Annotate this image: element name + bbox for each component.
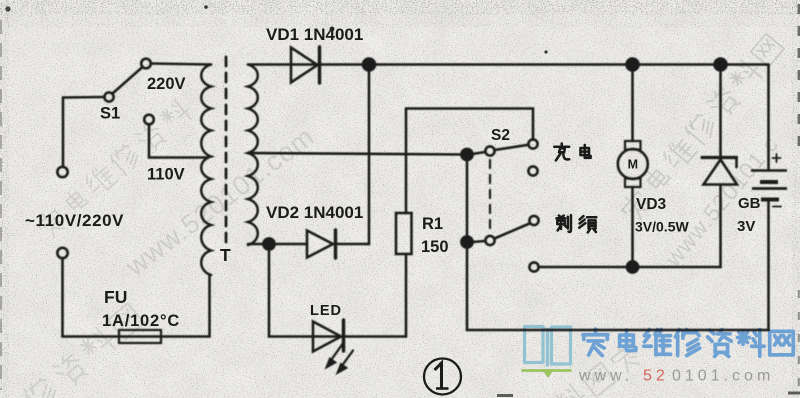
wire: battery negative lead (767, 200, 770, 331)
switch S2 contact: charge (528, 139, 537, 148)
transformer T primary winding (201, 65, 211, 276)
svg-text:110V: 110V (147, 166, 185, 184)
switch S2 section 2 pole (485, 236, 494, 245)
svg-text:T: T (220, 245, 231, 265)
logo: book icon (teal open book with green underline) (522, 327, 572, 379)
svg-text:3V: 3V (737, 218, 755, 235)
watermark diagonal: 家电维修资料网 (top-right area) (618, 32, 786, 224)
svg-text:VD3: VD3 (636, 196, 667, 213)
svg-text:M: M (628, 158, 638, 172)
node: S2 pole 2 (461, 236, 472, 247)
terminal: mains prong upper (57, 167, 67, 177)
node: motor bottom junction (627, 261, 638, 272)
zener diode VD3 3V/0.5W (702, 158, 737, 185)
switch S1 arm (113, 67, 143, 94)
label 充电 (charge) (554, 143, 590, 160)
terminal: mains prong lower (57, 248, 67, 258)
svg-text:LED: LED (310, 303, 342, 319)
svg-text:VD1 1N4001: VD1 1N4001 (266, 25, 363, 44)
wire: motor feed across (539, 266, 721, 269)
switch S2 mechanical link (dashed) (489, 160, 491, 232)
dense scan noise at right edge (792, 0, 800, 398)
wire: transformer centre tap to S2 (248, 153, 467, 155)
wire: VD3 upper lead (719, 65, 722, 158)
svg-text:S2: S2 (491, 127, 510, 144)
label 剃须 (shave) (557, 215, 597, 232)
diode VD2 1N4001 (307, 230, 336, 258)
svg-text:FU: FU (104, 287, 127, 307)
wire: top DC rail (248, 63, 769, 66)
diode VD1 1N4001 (291, 47, 320, 83)
svg-text:52: 52 (643, 368, 669, 385)
node: VD3 top (715, 59, 727, 71)
transformer T secondary winding (248, 65, 258, 246)
svg-text:R1: R1 (422, 215, 443, 233)
switch S2 contact: motor feed (529, 262, 538, 271)
svg-text:S1: S1 (100, 105, 120, 123)
watermark fragment under logo (551, 339, 644, 398)
node: centre-tap / S2 pole 1 (461, 149, 472, 160)
terminal: 110V tap (144, 115, 154, 125)
figure number ① (424, 359, 461, 395)
battery GB 3V (751, 154, 787, 207)
switch S1 pole (104, 92, 113, 101)
svg-text:www.: www. (578, 368, 633, 385)
switch S2 section 1 arm (495, 145, 529, 150)
logo text: 家电维修资料网 (blue) (583, 329, 793, 356)
wire: VD2 cathode riser (335, 65, 369, 245)
wire: battery positive lead (767, 65, 770, 171)
wire: mains lower to fuse (63, 259, 210, 337)
svg-text:~110V/220V: ~110V/220V (25, 211, 124, 230)
dense scan noise at top edge (0, 0, 800, 15)
svg-text:220V: 220V (147, 75, 186, 93)
wire: bottom rail (467, 329, 769, 332)
svg-text:VD2 1N4001: VD2 1N4001 (266, 203, 363, 222)
switch S2 section 1 pole (485, 146, 494, 155)
switch S2 contact: shave (529, 216, 538, 225)
wire: 110V tap to primary (149, 125, 208, 158)
watermark diagonal: www.520101 (right side) (659, 131, 783, 272)
terminal: 220V tap (141, 59, 151, 69)
resistor R1 150 (396, 213, 412, 254)
wire: R1 lower lead (405, 254, 408, 337)
node: motor top (627, 59, 639, 71)
wire: motor lower lead (631, 187, 634, 267)
node: rectifier output junction (363, 59, 375, 71)
logo url: www.520101.com (578, 368, 774, 385)
svg-text:3V/0.5W: 3V/0.5W (635, 219, 689, 235)
switch S2 contact: open lower (528, 166, 537, 175)
watermark diagonal: 家电维修资料网 (top-left area) (34, 97, 195, 242)
wire: S1 to mains terminal (63, 97, 105, 167)
watermark diagonal: www.520101.com (center-left) (120, 121, 320, 282)
svg-text:150: 150 (421, 238, 449, 256)
wire: VD3 lower lead (719, 185, 722, 268)
watermark fragment bottom-left corner (22, 302, 146, 398)
node: secondary bottom junction (263, 238, 274, 249)
wire: motor upper lead (631, 65, 634, 142)
wire: R1 upper lead (405, 109, 408, 214)
svg-text:0101.com: 0101.com (672, 368, 774, 385)
dense scan noise at left edge (0, 0, 9, 398)
wire: secondary bottom to VD2 anode (248, 243, 307, 246)
wire: S2 common bus down to bottom rail (466, 155, 469, 331)
wire: 220V tap to primary top (151, 64, 211, 65)
motor M (618, 141, 648, 187)
svg-text:1A/102°C: 1A/102°C (102, 312, 180, 330)
LED indicator (313, 320, 353, 374)
wire: charge feed to S2 upper contact (406, 109, 533, 140)
wire: LED branch down and across (269, 244, 406, 337)
transformer T core (dashed) (225, 57, 228, 243)
switch S2 section 2 arm (495, 224, 530, 239)
svg-text:GB: GB (738, 195, 761, 212)
fuse FU 1A/102C (119, 330, 161, 343)
